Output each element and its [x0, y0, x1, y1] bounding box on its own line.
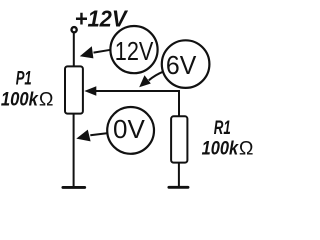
arrow from 0V bubble to ground wire	[90, 133, 107, 135]
ground (right)	[169, 186, 188, 189]
ground (left)	[63, 186, 85, 189]
wiper arrow of P1	[84, 86, 96, 95]
wire P1 bottom to ground	[73, 114, 75, 187]
svg-text:P1: P1	[16, 69, 32, 90]
wire terminal to P1 top	[73, 33, 75, 68]
meter bubble 12V	[110, 26, 157, 73]
svg-text:0V: 0V	[113, 116, 145, 144]
svg-text:12V: 12V	[115, 38, 154, 66]
meter bubble 0V	[107, 107, 154, 154]
arrow from 12V bubble to top wire	[94, 50, 111, 53]
svg-text:6V: 6V	[166, 52, 196, 80]
wire wiper node to R1 top	[95, 91, 179, 118]
svg-text:100k: 100k	[202, 138, 240, 160]
wire R1 bottom to ground	[178, 163, 180, 187]
svg-text:R1: R1	[214, 118, 231, 139]
svg-text:Ω: Ω	[39, 88, 54, 110]
svg-text:+12V: +12V	[75, 5, 129, 31]
resistor R1 body	[171, 116, 187, 162]
svg-text:Ω: Ω	[239, 138, 254, 160]
svg-text:100k: 100k	[1, 88, 39, 110]
terminal +12V (open circle)	[72, 27, 77, 32]
meter bubble 6V	[162, 40, 210, 88]
potentiometer P1 body	[65, 66, 83, 113]
arrow from 6V bubble to wiper wire	[149, 72, 164, 81]
